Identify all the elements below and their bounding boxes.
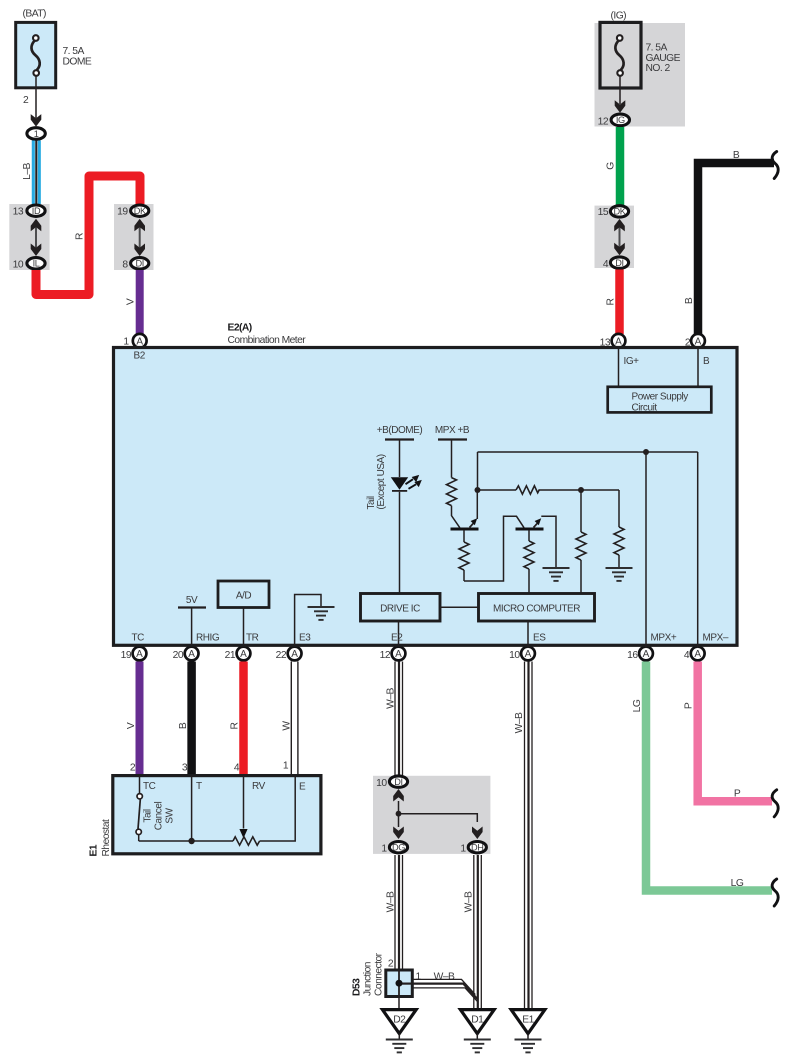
svg-text:TC: TC xyxy=(132,633,145,644)
connector oval IL xyxy=(27,258,45,269)
svg-text:B: B xyxy=(733,150,740,161)
ground triangle E1 xyxy=(511,1010,545,1040)
svg-text:B: B xyxy=(178,722,189,729)
svg-text:(IG): (IG) xyxy=(611,11,627,22)
svg-text:ES: ES xyxy=(533,633,546,644)
svg-text:TR: TR xyxy=(246,633,259,644)
transistor Q1 base bar xyxy=(451,528,479,531)
junction arrows DK-DI xyxy=(614,219,625,255)
svg-text:1: 1 xyxy=(460,844,466,855)
wire B (black, pin 20 to rheostat T) xyxy=(187,662,196,776)
svg-text:10: 10 xyxy=(509,650,520,661)
svg-text:V: V xyxy=(126,298,137,305)
svg-text:SW: SW xyxy=(165,807,176,823)
svg-text:E3: E3 xyxy=(299,633,311,644)
svg-text:MPX +B: MPX +B xyxy=(435,425,470,436)
D53 node dot xyxy=(396,980,403,987)
svg-text:1: 1 xyxy=(283,761,289,772)
connector oval DI xyxy=(389,776,407,787)
svg-text:4: 4 xyxy=(234,763,240,774)
svg-text:12: 12 xyxy=(380,650,391,661)
wire W (white, pin 22 to rheostat E) xyxy=(291,662,298,776)
svg-text:21: 21 xyxy=(225,650,236,661)
svg-text:20: 20 xyxy=(173,650,184,661)
svg-text:5V: 5V xyxy=(186,595,198,606)
wire R (red, DI to meter pin 13) xyxy=(615,270,624,335)
ground G5 xyxy=(606,568,633,581)
svg-text:IL: IL xyxy=(33,259,40,269)
wire W-B (DG to D53) xyxy=(395,855,403,970)
svg-text:3: 3 xyxy=(182,763,188,774)
svg-text:B: B xyxy=(684,297,695,304)
wire R2 to J3 xyxy=(540,489,620,491)
node J3 xyxy=(578,487,584,493)
wire node to DH branch xyxy=(399,814,478,822)
potentiometer resistor xyxy=(233,837,260,845)
connector oval DK xyxy=(610,206,628,217)
wire MPX- vertical xyxy=(697,452,699,648)
wire through D53 horizontal xyxy=(399,982,412,984)
svg-text:LG: LG xyxy=(632,699,643,712)
connector oval DH xyxy=(468,842,486,853)
svg-text:E1: E1 xyxy=(522,1015,534,1026)
arrow down to DH xyxy=(472,827,483,840)
svg-text:DI: DI xyxy=(615,258,623,268)
E3 internal ground xyxy=(295,595,335,646)
svg-text:W–B: W–B xyxy=(385,891,396,912)
transistor Q2 emitter arrow xyxy=(534,516,557,568)
svg-text:L–B: L–B xyxy=(22,162,33,179)
A/D converter box xyxy=(218,581,269,645)
arrow into connector 1 xyxy=(31,114,42,127)
meter pin 10 (A) circle xyxy=(521,647,535,661)
svg-text:R: R xyxy=(606,298,617,305)
resistor R5 (to ground) xyxy=(614,490,624,568)
svg-text:1: 1 xyxy=(416,972,422,983)
arrow into IG xyxy=(615,100,626,113)
wire B (black) with break xyxy=(698,163,774,334)
wire R (red, IL to DK) xyxy=(36,176,140,295)
MICRO COMPUTER box xyxy=(479,594,595,622)
svg-text:E1: E1 xyxy=(89,844,100,856)
wire through D53 vertical xyxy=(398,970,400,997)
ground symbol D1 xyxy=(464,1040,491,1053)
svg-text:15: 15 xyxy=(598,207,609,218)
wire W-B (DH to D1 ground) xyxy=(474,855,482,1009)
svg-text:R: R xyxy=(75,233,86,240)
svg-text:22: 22 xyxy=(276,650,287,661)
wire G (green) xyxy=(616,127,625,205)
wire J1 up to bus xyxy=(477,452,479,490)
arrow up to DI xyxy=(393,789,404,802)
svg-text:2: 2 xyxy=(130,763,136,774)
svg-text:Circuit: Circuit xyxy=(632,403,658,414)
svg-text:W: W xyxy=(282,721,293,731)
wire MPX+ vertical xyxy=(645,452,647,648)
svg-text:1: 1 xyxy=(123,337,129,348)
connector oval DK xyxy=(131,205,149,216)
wire break curl xyxy=(772,152,778,179)
svg-text:RV: RV xyxy=(252,781,266,792)
svg-text:B: B xyxy=(703,356,710,367)
resistor R3 (Q1 lower) xyxy=(459,530,469,581)
svg-text:19: 19 xyxy=(117,207,128,218)
svg-text:DI: DI xyxy=(136,259,144,269)
wire V (violet, pin 19 to rheostat TC) xyxy=(136,662,144,776)
Q2 collector resistor R6 xyxy=(524,530,534,594)
svg-text:13: 13 xyxy=(13,207,24,218)
wire R3 to Q2 base xyxy=(464,516,524,581)
svg-text:P: P xyxy=(683,702,694,709)
svg-text:D2: D2 xyxy=(393,1015,406,1026)
svg-text:P: P xyxy=(734,789,741,800)
5V terminal xyxy=(178,595,206,645)
resistor R4 (J3 to micro computer) xyxy=(576,490,586,594)
potentiometer wiper arrow xyxy=(239,776,247,839)
wire DI to node xyxy=(398,801,400,814)
ground triangle D1 xyxy=(460,1010,494,1040)
+B(DOME) terminal xyxy=(377,425,423,477)
svg-text:DG: DG xyxy=(392,842,405,852)
svg-text:Tail: Tail xyxy=(143,809,154,822)
meter pin 12 (A) circle xyxy=(392,647,406,661)
svg-text:1: 1 xyxy=(381,844,387,855)
connector oval DI xyxy=(131,258,149,269)
tail cancel switch SW1 xyxy=(136,776,142,841)
svg-text:(Except USA): (Except USA) xyxy=(376,454,387,509)
svg-text:Connector: Connector xyxy=(374,952,385,996)
meter pin 22 (A) circle xyxy=(288,647,302,661)
svg-text:MPX+: MPX+ xyxy=(651,633,677,644)
fuse F1 box (7.5A DOME) xyxy=(16,22,56,87)
connector oval DI xyxy=(610,257,628,268)
svg-text:D53: D53 xyxy=(352,978,363,996)
connector block ID/IL (gray) xyxy=(9,204,49,270)
DRIVE IC box xyxy=(361,594,441,622)
svg-text:IG+: IG+ xyxy=(624,356,640,367)
wire break curl LG xyxy=(772,879,778,906)
IG block background xyxy=(595,23,686,127)
wire pin2 to power supply xyxy=(697,349,699,387)
transistor Q1 emitter arrow xyxy=(470,490,478,528)
svg-text:E: E xyxy=(299,782,306,793)
svg-text:16: 16 xyxy=(627,650,638,661)
svg-text:R: R xyxy=(230,722,241,729)
svg-text:DK: DK xyxy=(614,207,627,217)
node J1 xyxy=(475,487,481,493)
meter pin 4 (A) circle xyxy=(691,647,705,661)
power supply circuit box xyxy=(608,387,712,413)
meter pin 13 (A) xyxy=(612,334,626,348)
svg-text:DRIVE IC: DRIVE IC xyxy=(380,604,420,615)
meter pin 2 (A) xyxy=(691,334,705,348)
wire LG (light green, MPX+) xyxy=(646,662,772,891)
wire node to DG arrow xyxy=(398,814,400,827)
label Tail Cancel SW xyxy=(143,802,176,831)
wire break curl P xyxy=(772,790,778,817)
resistor R1 (MPX+B pullup) xyxy=(447,478,457,506)
svg-text:Power Supply: Power Supply xyxy=(632,392,689,403)
wire DRIVE IC to MICRO COMPUTER xyxy=(440,606,479,608)
junction arrows ID-IL xyxy=(31,219,42,256)
svg-text:D1: D1 xyxy=(471,1015,484,1026)
junction connector D53 xyxy=(386,970,413,997)
svg-text:RHIG: RHIG xyxy=(196,633,220,644)
connector oval IG xyxy=(611,114,629,126)
wire fuse to connector 1 xyxy=(35,76,37,118)
wire MICRO COMPUTER to pin ES xyxy=(527,621,529,648)
wire pin13 to power supply xyxy=(618,349,620,387)
svg-text:Cancel: Cancel xyxy=(154,802,165,831)
fuse F2 symbol xyxy=(615,35,623,76)
wire fuse to IG terminal xyxy=(619,76,621,104)
ground triangle D2 xyxy=(382,1010,416,1040)
wire R1 to Q1 xyxy=(452,506,460,528)
svg-text:IG: IG xyxy=(616,115,625,125)
wire L-B (blue-black-blue) xyxy=(33,141,39,205)
combination meter box E2(A) xyxy=(114,348,738,646)
svg-text:8: 8 xyxy=(122,260,128,271)
node D-junction xyxy=(396,811,402,817)
svg-text:DK: DK xyxy=(134,206,147,216)
connector oval ID xyxy=(27,205,45,216)
svg-text:A/D: A/D xyxy=(236,591,252,602)
svg-text:Rheostat: Rheostat xyxy=(101,819,112,857)
rheostat box E1 xyxy=(113,776,321,854)
svg-text:V: V xyxy=(126,722,137,729)
svg-text:ID: ID xyxy=(32,206,41,216)
svg-text:10: 10 xyxy=(13,260,24,271)
svg-text:NO. 2: NO. 2 xyxy=(646,63,671,74)
MPX +B terminal xyxy=(435,425,470,478)
wire W-B (pin 12 to DI) xyxy=(395,662,403,776)
svg-text:TC: TC xyxy=(143,781,156,792)
wire R (red, pin 21 to rheostat RV) xyxy=(239,662,248,776)
connector block DK/DI (gray) xyxy=(114,204,154,270)
wire J1 to R2 xyxy=(478,489,517,491)
ground symbol E1 xyxy=(515,1040,542,1053)
svg-text:T: T xyxy=(196,781,202,792)
junction arrows DK-DI xyxy=(134,219,145,256)
wire P (pink, MPX-) xyxy=(698,662,772,802)
svg-text:W–B: W–B xyxy=(434,972,455,983)
wire LED to DRIVE IC xyxy=(399,492,401,594)
svg-text:10: 10 xyxy=(376,778,387,789)
transistor Q2 base bar xyxy=(516,528,544,531)
wire W-B jumper D53 to D1 wire xyxy=(412,979,478,1002)
svg-text:B2: B2 xyxy=(134,351,146,362)
wire V (violet, DI to meter pin 1) xyxy=(136,270,144,334)
wire DRIVE IC to pin E2 xyxy=(398,621,400,645)
svg-text:DH: DH xyxy=(471,842,483,852)
wire D53 to D2 ground xyxy=(398,997,400,1011)
svg-text:2: 2 xyxy=(23,95,29,106)
meter pin 20 (A) circle xyxy=(185,647,199,661)
fuse F2 box (7.5A GAUGE NO.2) xyxy=(600,22,641,88)
svg-text:1: 1 xyxy=(34,129,39,139)
node J2 (MPX+ tap) xyxy=(643,449,649,455)
svg-text:MPX–: MPX– xyxy=(703,633,729,644)
ground G2 (Q2 emitter) xyxy=(543,568,570,581)
svg-text:W–B: W–B xyxy=(464,891,475,912)
ground symbol D2 xyxy=(386,1040,413,1053)
LED D1 (tail lamp) xyxy=(391,475,422,491)
connector block DI/DG/DH (gray) xyxy=(373,776,490,854)
resistor R2 (horizontal) xyxy=(516,486,540,494)
svg-text:Combination Meter: Combination Meter xyxy=(228,335,307,346)
meter pin 1 (A) xyxy=(133,334,147,348)
meter pin 19 (A) circle xyxy=(133,647,147,661)
arrow down to DG xyxy=(393,827,404,840)
meter pin 16 (A) circle xyxy=(639,647,653,661)
connector block DK/DI right (gray) xyxy=(595,206,635,268)
rheostat T vertical wire xyxy=(191,776,193,841)
wire pot to E xyxy=(260,776,296,841)
svg-text:E2(A): E2(A) xyxy=(228,323,252,334)
svg-text:E2: E2 xyxy=(391,633,403,644)
svg-text:G: G xyxy=(606,162,617,170)
rheostat bottom wire xyxy=(139,840,233,842)
svg-text:DI: DI xyxy=(394,777,402,787)
wire top bus xyxy=(478,451,698,453)
svg-text:W–B: W–B xyxy=(514,712,525,733)
svg-text:LG: LG xyxy=(731,878,744,889)
svg-text:2: 2 xyxy=(388,959,394,970)
wire W-B (pin 10 / ES down to E1 ground) xyxy=(525,662,533,1010)
svg-text:(BAT): (BAT) xyxy=(23,9,46,20)
svg-text:12: 12 xyxy=(598,117,609,128)
svg-text:W–B: W–B xyxy=(385,687,396,708)
svg-text:MICRO COMPUTER: MICRO COMPUTER xyxy=(493,604,580,615)
svg-text:19: 19 xyxy=(121,650,132,661)
connector oval 1 xyxy=(27,128,45,140)
connector oval DG xyxy=(389,842,407,853)
node T junction xyxy=(188,838,194,844)
meter pin 21 (A) circle xyxy=(237,647,251,661)
svg-text:+B(DOME): +B(DOME) xyxy=(377,425,423,436)
svg-text:4: 4 xyxy=(684,650,690,661)
svg-text:4: 4 xyxy=(603,259,609,270)
svg-text:DOME: DOME xyxy=(63,56,92,67)
fuse F1 symbol xyxy=(31,35,39,76)
svg-text:Junction: Junction xyxy=(363,961,374,996)
